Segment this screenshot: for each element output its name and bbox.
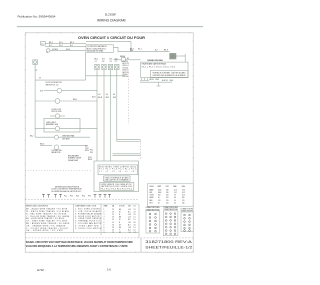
svg-text:W-32: W-32 <box>106 97 110 99</box>
svg-text:18: 18 <box>112 219 114 221</box>
svg-text:R-43 3-2: R-43 3-2 <box>162 80 168 82</box>
svg-text:P5-4: P5-4 <box>82 196 85 198</box>
svg-text:240: 240 <box>166 192 169 194</box>
svg-text:W-22 2-4: W-22 2-4 <box>123 65 129 67</box>
svg-text:2-7: 2-7 <box>115 61 117 63</box>
svg-text:4. DOOR LOCK MOTOR: 4. DOOR LOCK MOTOR <box>75 216 100 218</box>
svg-text:BK-62: BK-62 <box>88 159 92 161</box>
svg-text:N-1: N-1 <box>128 211 131 213</box>
svg-text:0.3: 0.3 <box>174 197 176 199</box>
svg-text:3-8: 3-8 <box>98 94 100 96</box>
svg-text:W-4: W-4 <box>130 50 133 52</box>
svg-text:2-3: 2-3 <box>85 146 87 148</box>
svg-text:18: 18 <box>112 211 114 213</box>
svg-text:ELEMENT 2500W: ELEMENT 2500W <box>68 158 81 160</box>
svg-text:BRL: BRL <box>150 192 153 194</box>
svg-text:BK-21 2-2: BK-21 2-2 <box>123 63 130 65</box>
svg-text:W-61: W-61 <box>88 157 92 159</box>
svg-text:1-6: 1-6 <box>107 267 111 271</box>
svg-text:THERMAL FUSE / FUSIBLE: THERMAL FUSE / FUSIBLE <box>147 59 164 62</box>
svg-text:R-2: R-2 <box>70 45 73 47</box>
svg-text:14.1: 14.1 <box>174 192 177 194</box>
svg-text:P6-1: P6-1 <box>90 150 93 152</box>
svg-text:VOLT: VOLT <box>166 186 170 188</box>
svg-text:BK-8: BK-8 <box>164 50 168 52</box>
svg-text:P5-3: P5-3 <box>76 196 79 198</box>
svg-text:P5-5: P5-5 <box>88 196 91 198</box>
svg-text:L2-2: L2-2 <box>128 222 131 224</box>
svg-text:COLOR: COLOR <box>119 206 125 208</box>
svg-text:CONNECTOR P3: CONNECTOR P3 <box>181 208 194 210</box>
svg-text:1.0: 1.0 <box>134 227 136 229</box>
svg-text:BU: BU <box>119 227 121 229</box>
svg-text:R-33: R-33 <box>113 97 116 99</box>
svg-text:5. OVEN TEMP SENSOR: 5. OVEN TEMP SENSOR <box>75 218 102 220</box>
svg-text:120: 120 <box>182 200 185 202</box>
svg-text:120: 120 <box>166 202 169 204</box>
svg-text:120: 120 <box>166 195 169 197</box>
svg-text:W-44: W-44 <box>170 80 174 82</box>
svg-text:P2-1: P2-1 <box>138 49 142 51</box>
svg-text:120V 60HZ: 120V 60HZ <box>62 138 70 140</box>
svg-text:P5-2: P5-2 <box>70 196 73 198</box>
svg-text:2.9: 2.9 <box>174 195 176 197</box>
svg-text:W-26 3-2: W-26 3-2 <box>123 74 129 76</box>
svg-text:N-3: N-3 <box>128 224 131 226</box>
svg-text:BK-55: BK-55 <box>40 144 44 146</box>
svg-text:BK: BK <box>119 217 121 219</box>
svg-text:10.4: 10.4 <box>174 189 177 191</box>
svg-text:2-5: 2-5 <box>110 61 112 63</box>
svg-text:DOOR LOCK: DOOR LOCK <box>52 109 63 111</box>
svg-text:360: 360 <box>182 197 185 199</box>
svg-text:P1-1: P1-1 <box>59 42 63 44</box>
svg-text:40: 40 <box>158 197 160 199</box>
svg-text:P4-1 |- P4-2 |- P4-3 |- P4-5 |: P4-1 |- P4-2 |- P4-3 |- P4-5 |- P4-6 <box>142 66 175 68</box>
svg-text:SWITCH N.O. 2-6: SWITCH N.O. 2-6 <box>46 84 59 86</box>
svg-text:41.0: 41.0 <box>182 195 185 197</box>
svg-text:R-1: R-1 <box>49 45 52 47</box>
svg-text:BK: BK <box>119 209 121 211</box>
svg-text:1.0: 1.0 <box>174 200 176 202</box>
svg-text:1.0: 1.0 <box>134 230 136 232</box>
svg-text:18: 18 <box>112 217 114 219</box>
svg-text:16: 16 <box>112 214 114 216</box>
svg-text:P6-2: P6-2 <box>90 152 93 154</box>
svg-text:W-42: W-42 <box>156 79 160 81</box>
svg-text:W-24: W-24 <box>92 96 96 98</box>
svg-text:2-3: 2-3 <box>102 61 104 63</box>
svg-text:BK-19: BK-19 <box>85 150 89 152</box>
svg-text:TL: TL <box>36 70 38 72</box>
svg-text:2500: 2500 <box>158 189 161 191</box>
svg-text:1.5: 1.5 <box>134 217 136 219</box>
svg-text:BK-5: BK-5 <box>95 58 99 60</box>
svg-text:16.9: 16.9 <box>182 192 185 194</box>
svg-text:CONV: CONV <box>150 195 154 197</box>
svg-text:CONNECTOR P1 VIEW: CONNECTOR P1 VIEW <box>146 207 161 209</box>
svg-text:SHOWN IN UNLOCKED POSITION: SHOWN IN UNLOCKED POSITION <box>55 186 80 188</box>
svg-text:3.0: 3.0 <box>134 222 136 224</box>
svg-text:ELC30S8F: ELC30S8F <box>105 12 116 16</box>
svg-text:BK-12: BK-12 <box>73 99 77 101</box>
svg-text:2.0: 2.0 <box>134 211 136 213</box>
svg-text:Y: Y <box>119 230 120 232</box>
svg-text:350: 350 <box>158 195 161 197</box>
svg-text:W-6: W-6 <box>115 58 118 60</box>
svg-text:N-4: N-4 <box>128 230 131 232</box>
svg-text:WIRING DIAGRAM: WIRING DIAGRAM <box>97 19 126 23</box>
svg-text:OVEN CIRCUIT // CIRCUIT DU FOU: OVEN CIRCUIT // CIRCUIT DU FOUR <box>78 36 145 40</box>
svg-text:60: 60 <box>158 202 160 204</box>
svg-text:120: 120 <box>166 197 169 199</box>
svg-text:P3-1 P3-2 P3-3 P3-4 P3-5 P3-6: P3-1 P3-2 P3-3 P3-4 P3-5 P3-6 <box>101 188 132 190</box>
svg-text:18: 18 <box>112 227 114 229</box>
svg-text:9. DOOR LOCK SWITCH: 9. DOOR LOCK SWITCH <box>75 228 102 230</box>
svg-text:3-6: 3-6 <box>106 94 108 96</box>
svg-text:W-9: W-9 <box>40 91 43 93</box>
svg-text:INDIQUES EN GRAS: INDIQUES EN GRAS <box>87 50 104 53</box>
svg-text:P1-2: P1-2 <box>59 45 63 47</box>
svg-text:R-23 2-6: R-23 2-6 <box>123 67 129 69</box>
svg-text:2.5: 2.5 <box>134 209 136 211</box>
svg-text:BK-41: BK-41 <box>150 79 154 81</box>
svg-text:K1: K1 <box>127 58 129 60</box>
svg-text:1.5: 1.5 <box>134 219 136 221</box>
svg-text:MOTOR 120V: MOTOR 120V <box>52 111 63 113</box>
svg-text:Publication No: 5995443604: Publication No: 5995443604 <box>18 15 56 19</box>
svg-text:W-24 2-8: W-24 2-8 <box>123 70 129 72</box>
svg-text:CONVECTION: CONVECTION <box>52 150 62 152</box>
svg-text:3400: 3400 <box>158 192 161 194</box>
svg-text:240: 240 <box>182 202 185 204</box>
svg-text:W-5: W-5 <box>102 58 105 60</box>
svg-text:WIRE: WIRE <box>104 206 108 208</box>
svg-text:VALEURS INDIQUEES A LA TEMPERA: VALEURS INDIQUEES A LA TEMPERATURE AMBIA… <box>26 244 128 248</box>
svg-text:DOOR LOCK SWITCH / INTERRUPTEU: DOOR LOCK SWITCH / INTERRUPTEUR <box>52 189 83 191</box>
svg-text:P5-1: P5-1 <box>64 196 67 198</box>
svg-text:E702: E702 <box>37 268 44 272</box>
svg-text:L1-1: L1-1 <box>128 209 131 211</box>
svg-text:W-10: W-10 <box>66 49 70 51</box>
svg-text:2-1: 2-1 <box>95 61 97 63</box>
svg-text:BK-31: BK-31 <box>98 97 102 99</box>
svg-text:2.0: 2.0 <box>134 224 136 226</box>
svg-text:BK-25 3-1: BK-25 3-1 <box>123 72 130 74</box>
svg-text:GY: GY <box>119 224 121 226</box>
svg-text:ELECTRONIC OVEN CONTROL (EOC): ELECTRONIC OVEN CONTROL (EOC) <box>99 166 136 168</box>
svg-text:W-18: W-18 <box>85 148 89 150</box>
svg-text:1. EOC OVEN CONTROL: 1. EOC OVEN CONTROL <box>75 209 101 211</box>
svg-text:BK-1: BK-1 <box>49 42 53 44</box>
svg-text:P2-4 1-4: P2-4 1-4 <box>123 61 129 63</box>
svg-text:8-2: 8-2 <box>155 50 158 52</box>
svg-text:L1-3: L1-3 <box>128 227 131 229</box>
svg-text:120: 120 <box>158 200 161 202</box>
svg-text:P1-1 P1-2 P1-3 P1-4 P1-5 P1-6: P1-1 P1-2 P1-3 P1-4 P1-5 P1-6 <box>99 169 136 171</box>
svg-text:WIRING CODE / CODE DE FILS: WIRING CODE / CODE DE FILS <box>26 205 48 207</box>
svg-text:SHEET/FEUILLE-1/2: SHEET/FEUILLE-1/2 <box>145 245 192 249</box>
svg-text:GN - GREEN WIRE / FIL VERT: GN - GREEN WIRE / FIL VERT <box>26 230 63 232</box>
svg-text:R-27 3-3: R-27 3-3 <box>123 76 129 78</box>
svg-text:18: 18 <box>112 230 114 232</box>
svg-text:RELAY: RELAY <box>120 55 126 58</box>
svg-text:14: 14 <box>112 222 114 224</box>
svg-text:3-4: 3-4 <box>113 94 115 96</box>
svg-text:R-5: R-5 <box>110 58 113 60</box>
svg-text:2.5: 2.5 <box>134 214 136 216</box>
svg-text:N-2: N-2 <box>128 219 131 221</box>
svg-text:L1-2: L1-2 <box>128 217 131 219</box>
svg-text:23.0: 23.0 <box>182 189 185 191</box>
svg-text:0.5: 0.5 <box>174 202 176 204</box>
svg-text:COMPONENT CODE / CODE: COMPONENT CODE / CODE <box>75 205 96 207</box>
svg-text:18: 18 <box>112 224 114 226</box>
svg-text:318271800 REV:A: 318271800 REV:A <box>145 240 193 244</box>
svg-text:MOT: MOT <box>150 202 153 204</box>
svg-text:GY/W-2: GY/W-2 <box>52 49 58 51</box>
svg-text:L2-1: L2-1 <box>128 214 131 216</box>
svg-text:BK-2: BK-2 <box>70 42 74 44</box>
svg-text:DOOR LOCK MOTOR: DOOR LOCK MOTOR <box>46 82 63 84</box>
svg-text:CONNECTOR P2 VIEW: CONNECTOR P2 VIEW <box>163 207 178 209</box>
svg-text:240: 240 <box>166 189 169 191</box>
svg-text:BK-2: BK-2 <box>30 136 34 138</box>
svg-text:OVEN LIGHT: OVEN LIGHT <box>46 122 56 124</box>
svg-text:120: 120 <box>166 200 169 202</box>
svg-text:18: 18 <box>112 209 114 211</box>
svg-text:J1 - J2 - J3 - J4 - J5 - J6 -: J1 - J2 - J3 - J4 - J5 - J6 - <box>99 171 136 173</box>
